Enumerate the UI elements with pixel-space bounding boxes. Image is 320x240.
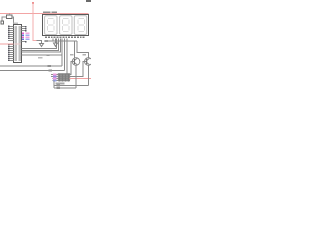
junction hop common [45, 40, 48, 42]
display digit 2 [60, 16, 72, 35]
text Q1 [70, 54, 74, 56]
junction hop d [57, 85, 61, 87]
resistor bodies hatch [58, 75, 70, 81]
wire Q1 collector [74, 41, 76, 58]
wire P2.0 long [22, 54, 63, 56]
wire common net y41 [44, 40, 77, 42]
junction hop e [57, 87, 61, 89]
capacitor C3 reset [7, 15, 13, 19]
wire to terminal [37, 41, 42, 45]
wire VCC to EA pin [0, 43, 14, 45]
wire base Q1 [70, 62, 75, 75]
transistor Q1 [72, 58, 80, 66]
text title top right [86, 0, 91, 2]
resistor R1 blob [1, 21, 4, 24]
wire VCC elbow [33, 40, 37, 42]
wire P2.1 long [0, 70, 65, 72]
node P3.2 state pink [22, 37, 24, 38]
wire VCC vertical [32, 3, 34, 41]
text Common Anode [43, 11, 51, 13]
IC left pin state squares [8, 26, 10, 62]
wire base Q2 [70, 62, 87, 77]
IC pin name smudges [15, 26, 17, 61]
display digit 3 [74, 16, 86, 35]
resistor pack RP1 [51, 74, 70, 85]
wire Q1 emitter [75, 65, 77, 88]
ground terminal arrow [40, 44, 44, 47]
node P3.3 state blue [22, 39, 24, 40]
wire Q2 collector jog [77, 41, 88, 58]
display digit 1 [45, 16, 57, 35]
wire bottom 1 [54, 85, 88, 87]
node P3.0 state pink [22, 33, 24, 34]
wire pack row4 down [53, 81, 55, 89]
wire display common pin drop [52, 39, 54, 42]
wire reset left [2, 17, 7, 21]
wire bottom 2 [54, 87, 76, 89]
display DS1 box [43, 15, 89, 36]
text net label [38, 57, 43, 58]
power rail VCC [0, 13, 89, 15]
wire VCC pack red [70, 78, 92, 80]
IC right pin stubs upper [22, 27, 27, 42]
IC U1 body [14, 25, 22, 63]
node P3.1 state blue [22, 35, 24, 36]
display pin labels text row [45, 37, 85, 39]
transistor Q2 [85, 58, 93, 66]
wire reset to IC [12, 17, 14, 24]
text Q2 [83, 54, 87, 56]
wire seg a [22, 39, 57, 49]
junction hop b [49, 70, 53, 72]
pack state squares [53, 74, 57, 76]
wire digit pins verticals [61, 39, 63, 67]
wire seg b [22, 39, 59, 51]
text U1 label [14, 22, 19, 24]
junction hop a [48, 65, 52, 67]
ground terminal below display [55, 39, 57, 44]
node VCC top terminal [32, 2, 34, 4]
wire seg c [22, 39, 61, 53]
wire Q2 emitter [87, 65, 89, 85]
IC left pins [8, 27, 14, 61]
text RESPACK [56, 83, 65, 85]
junction hop seg a [47, 54, 50, 56]
